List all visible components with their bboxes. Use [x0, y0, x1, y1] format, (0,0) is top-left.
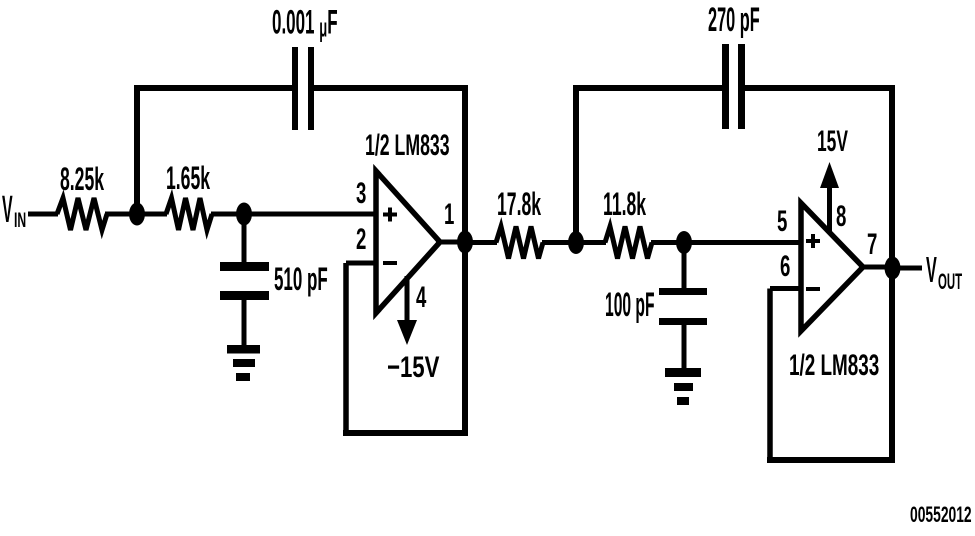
- node A junction: [129, 203, 145, 226]
- wire R1 to node A: [105, 212, 140, 217]
- wire U2 output to node F: [859, 265, 892, 270]
- wire input to R1: [28, 212, 58, 217]
- resistor R4 11.8k: [603, 188, 652, 259]
- wire node D up to feedback rail 2: [573, 88, 579, 243]
- op-amp U1 minus sign: [383, 261, 397, 265]
- svg-text:0.001 μF: 0.001 μF: [272, 3, 338, 43]
- wire feedback rail 2 left: [573, 85, 723, 91]
- svg-text:7: 7: [867, 228, 877, 262]
- op-amp U1 triangle: [376, 171, 440, 313]
- svg-text:2: 2: [356, 223, 366, 257]
- capacitor C3 270pF: [708, 0, 760, 129]
- wire node B down to C2: [242, 214, 247, 263]
- svg-text:5: 5: [777, 205, 787, 239]
- resistor R1 8.25k: [57, 163, 107, 230]
- wire U1 output to node C: [436, 240, 465, 245]
- svg-text:3: 3: [356, 177, 366, 211]
- wire column 2 from rail down to output node: [889, 88, 895, 268]
- wire node C to R3: [465, 240, 497, 245]
- svg-text:6: 6: [780, 250, 790, 284]
- wire pin 2 inverting input: [346, 261, 376, 266]
- node C output junction: [457, 231, 473, 254]
- wire feedback loop 2 bottom: [767, 457, 895, 463]
- wire node A up to feedback rail: [134, 88, 140, 214]
- node D junction: [568, 231, 584, 254]
- svg-text:00552012: 00552012: [910, 502, 972, 527]
- wire node E to op-amp pin 5: [684, 240, 801, 245]
- op-amp U2 triangle: [801, 203, 863, 331]
- svg-text:270 pF: 270 pF: [708, 0, 760, 38]
- capacitor C2 510pF: [220, 262, 328, 300]
- wire feedback loop 1 left vertical: [343, 263, 349, 433]
- wire feedback rail 2 right: [745, 85, 895, 91]
- svg-text:1.65k: 1.65k: [166, 162, 210, 197]
- svg-text:510 pF: 510 pF: [274, 263, 328, 298]
- wire feedback loop 1 bottom: [343, 430, 468, 436]
- wire pin 6 inverting input: [770, 286, 801, 291]
- svg-text:1: 1: [444, 198, 454, 232]
- ground G2: [665, 368, 701, 405]
- svg-text:−15V: −15V: [387, 350, 440, 384]
- resistor R3 17.8k: [496, 188, 543, 259]
- wire node E down to C4: [682, 243, 687, 290]
- wire C2 to ground: [242, 300, 247, 346]
- svg-text:OUT: OUT: [938, 269, 962, 294]
- node F output junction: [885, 257, 901, 280]
- wire feedback rail 1 right: [314, 85, 468, 91]
- svg-text:1/2 LM833: 1/2 LM833: [365, 129, 450, 162]
- node VOUT output label: [926, 250, 962, 294]
- capacitor C4 100pF: [605, 285, 707, 325]
- wire column from rail 1 down through output node to loop: [462, 88, 468, 433]
- svg-text:4: 4: [416, 281, 426, 315]
- ground G1: [227, 345, 260, 381]
- op-amp U2 minus sign: [806, 287, 820, 291]
- svg-text:V: V: [2, 189, 13, 231]
- node VIN input label: [2, 189, 26, 231]
- svg-text:100 pF: 100 pF: [605, 285, 655, 324]
- op-amp U2 plus sign: [806, 234, 820, 248]
- wire C4 to ground: [682, 325, 687, 370]
- capacitor C1 0.001uF: [272, 3, 338, 130]
- wire node F to VOUT: [892, 266, 922, 271]
- svg-text:IN: IN: [14, 207, 26, 231]
- svg-text:17.8k: 17.8k: [497, 188, 541, 223]
- svg-text:11.8k: 11.8k: [603, 188, 646, 223]
- wire R2 to node B: [211, 212, 244, 217]
- wire node D to R4: [576, 240, 606, 245]
- resistor R2 1.65k: [166, 162, 212, 230]
- svg-text:1/2 LM833: 1/2 LM833: [789, 349, 879, 383]
- svg-text:15V: 15V: [817, 125, 848, 158]
- svg-text:8: 8: [836, 200, 846, 234]
- wire feedback rail 1 left: [134, 85, 293, 91]
- wire feedback loop 2 left vertical: [767, 289, 773, 461]
- op-amp U1 plus sign: [383, 208, 397, 222]
- node E junction: [676, 231, 692, 254]
- pin 4 arrow to negative supply: [397, 276, 426, 345]
- wire node B to op-amp pin 3: [244, 212, 376, 217]
- wire feedback loop 2 right vertical: [889, 268, 895, 460]
- wire R3 to node D: [542, 240, 576, 245]
- node B junction: [236, 203, 252, 226]
- svg-text:V: V: [926, 250, 937, 290]
- wire node A to R2: [137, 212, 167, 217]
- pin 8 arrow to positive supply: [820, 162, 846, 233]
- wire R4 to node E: [651, 240, 684, 245]
- svg-text:8.25k: 8.25k: [60, 163, 104, 198]
